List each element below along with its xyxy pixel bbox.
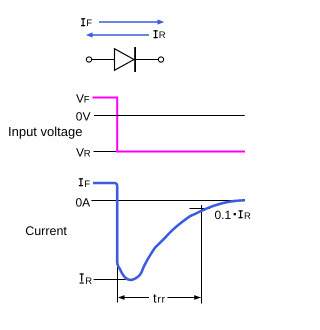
terminal circle right [158, 57, 163, 62]
svg-text:F: F [86, 18, 92, 29]
trr right boundary line [201, 205, 203, 304]
label trr (blue) [153, 290, 166, 305]
svg-text:R: R [84, 148, 91, 159]
label VR [76, 145, 91, 159]
label IF (forward current, top) [81, 18, 92, 29]
svg-text:R: R [85, 276, 92, 287]
svg-text:Input voltage: Input voltage [8, 124, 82, 139]
trr left boundary line [117, 264, 119, 303]
terminal circle left [86, 57, 91, 62]
0V axis line [94, 115, 245, 117]
input voltage step trace (magenta) [93, 98, 246, 152]
diode triangle D1 [115, 49, 135, 71]
svg-text:rr: rr [157, 294, 165, 306]
0.1 IR level tick [190, 208, 211, 210]
svg-text:R: R [159, 30, 166, 41]
cathode bar [134, 47, 136, 72]
svg-text:t: t [153, 290, 157, 305]
VR level lead line [94, 151, 117, 153]
label IR (reverse current, top) [154, 30, 166, 41]
anode wire [92, 59, 115, 61]
trr dimension arrow left [118, 295, 149, 300]
label VF [76, 92, 90, 106]
svg-text:Current: Current [25, 224, 67, 238]
svg-text:0.1: 0.1 [215, 208, 232, 222]
svg-text:F: F [84, 179, 90, 190]
label IR (current graph) [80, 273, 93, 287]
svg-text:0V: 0V [76, 109, 91, 123]
arrow IF (blue, pointing right) [99, 19, 164, 24]
svg-text:R: R [244, 211, 251, 222]
label IF (current graph) [79, 178, 90, 190]
trr dimension arrow right [168, 295, 201, 300]
svg-text:F: F [84, 95, 90, 106]
diode current curve (blue) [93, 183, 245, 280]
label 0.1·IR [215, 208, 252, 222]
IR level lead line [94, 279, 126, 281]
cathode wire [136, 59, 158, 61]
arrow IR (blue, pointing left) [86, 32, 149, 37]
0A axis line [91, 200, 245, 202]
svg-text:0A: 0A [76, 195, 91, 209]
